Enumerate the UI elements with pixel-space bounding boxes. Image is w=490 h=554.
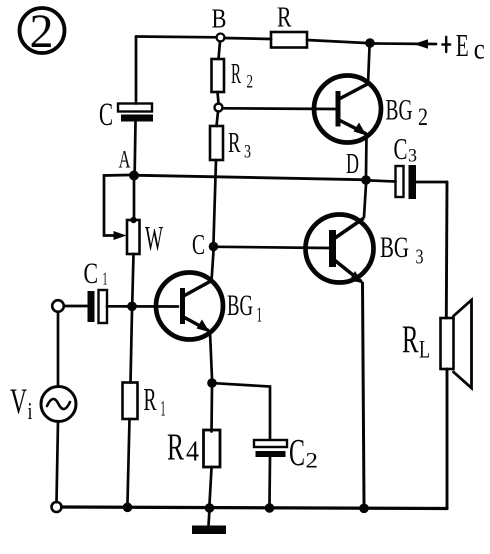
transistor BG2 [314,76,428,143]
node D [346,148,371,185]
svg-text:R: R [277,2,292,34]
resistor R [271,2,307,48]
wire right edge down to speaker [445,182,449,318]
wire R3 down to node C (crosses A-D wire) [214,160,217,242]
wire C2 down to bottom rail [268,457,271,504]
svg-text:R: R [228,127,241,159]
figure number 2 badge [20,5,65,58]
svg-text:V: V [10,381,27,421]
svg-text:C: C [99,97,113,133]
wire node C to BG3 base [218,247,329,248]
wire node A to node D [139,175,362,179]
bottom-left terminal (open circle) [52,502,62,512]
wire Vi down to bottom-left terminal [57,422,59,503]
wire R2 to node [218,92,219,104]
wire BG2 emitter down to node D [365,135,368,176]
wire W down to C1 node [132,254,133,302]
capacitor C3 [394,131,418,199]
node BG3 emitter on rail [359,504,369,514]
wire node down to R3 [217,112,219,127]
svg-text:2: 2 [418,104,428,131]
svg-text:A: A [119,147,131,174]
svg-text:3: 3 [416,245,424,269]
wire node B to resistor R [225,38,272,39]
node B [212,4,227,42]
wire node A down to potentiometer W [133,180,136,221]
svg-text:BG: BG [227,289,253,322]
svg-text:B: B [212,4,227,34]
transistor BG1 [156,273,262,340]
svg-text:R: R [231,58,241,90]
wire BG3 emitter down to bottom rail [363,283,365,504]
speaker RL [402,300,472,388]
svg-text:BG: BG [380,231,409,264]
wire C3 to right edge corner [416,181,447,184]
input terminal (open circle) [52,300,64,312]
svg-text:R: R [402,318,419,361]
source Vi [10,381,76,425]
wire speaker down to bottom rail corner [446,369,449,509]
wire resistor R to +Ec junction [307,40,366,43]
wire BG3 collector up to node D [364,185,366,218]
svg-text:BG: BG [386,94,413,127]
wire R1 down to bottom rail [128,419,130,503]
capacitor C1 [84,257,108,323]
wire C1 to BG1 base [107,305,178,308]
node at C1 / W junction [127,302,137,312]
wire capacitor C up to top-left corner [135,37,138,104]
svg-text:W: W [145,219,163,258]
node below R2 (open circle) [215,104,223,112]
bottom ground rail [62,507,448,509]
resistor R4 [167,427,220,469]
svg-text:1: 1 [161,396,166,421]
node at R4 / C2 branch [207,378,217,388]
svg-text:C: C [192,230,205,261]
wire node A left and down to potentiometer wiper [104,175,130,240]
wire node down to R4 [210,388,213,432]
wire top-left corner to node B [136,35,217,38]
wire input terminal to C1 [64,305,88,308]
wire node C to BG1 collector [212,251,214,281]
wire node right and down to C2 [217,383,271,439]
wire junction to +Ec with arrow [375,39,437,49]
node R1 on rail [123,503,133,513]
svg-text:2: 2 [306,448,319,473]
svg-text:3: 3 [244,142,251,163]
node A [119,147,140,181]
wire input terminal down to Vi [57,312,60,387]
svg-text:1: 1 [103,269,108,289]
svg-text:1: 1 [257,303,263,327]
svg-text:c: c [474,33,485,66]
wire node down to R1 [131,311,133,383]
wire BG1 emitter down to R4 node [210,332,212,379]
+Ec supply label [442,27,485,66]
svg-text:D: D [346,148,359,180]
capacitor C [99,97,153,133]
wire R4 down to bottom rail [210,468,212,504]
capacitor C2 [254,432,318,474]
wire node to BG2 base [223,107,337,110]
svg-text:2: 2 [247,72,254,93]
svg-text:3: 3 [408,146,417,167]
svg-text:C: C [289,432,305,474]
node C2 on rail [265,503,275,513]
wire BG2 collector up to supply junction [368,47,370,84]
node R4 on rail [205,503,215,513]
wire node B down to R2 [219,42,221,60]
svg-text:4: 4 [186,436,199,468]
wire node D to capacitor C3 [371,181,396,182]
svg-text:C: C [84,257,99,290]
svg-text:R: R [144,381,157,417]
resistor R1 [123,381,166,421]
resistor R2 [212,58,254,93]
svg-text:C: C [394,131,408,166]
wire node A up to capacitor C [133,122,137,171]
transistor BG3 [306,215,424,284]
ground symbol [192,509,226,534]
junction node (supply rail) [365,38,375,48]
svg-text:E: E [456,27,469,63]
resistor R3 [210,126,251,163]
node C [192,230,218,261]
potentiometer W [127,217,163,258]
svg-text:L: L [419,337,430,364]
svg-text:R: R [167,427,184,469]
svg-text:i: i [28,399,33,425]
svg-text:2: 2 [30,5,54,58]
